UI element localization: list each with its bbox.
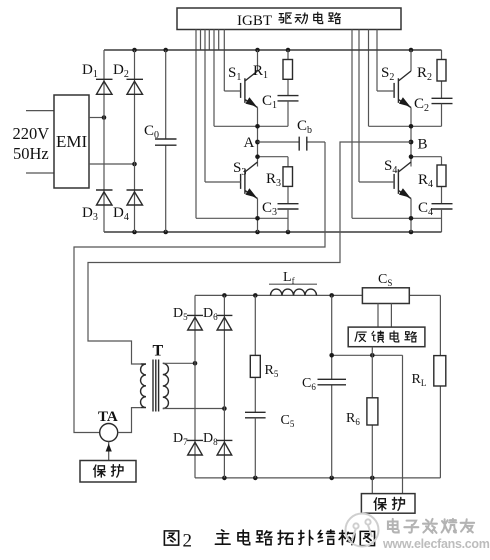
protection box right <box>361 494 415 514</box>
wire: S2 emitter return row <box>369 125 442 127</box>
resistor R4 <box>418 157 446 204</box>
wire: secondary top lead <box>163 362 195 364</box>
transistor S2 (IGBT) <box>377 50 411 167</box>
svg-text:IGBT: IGBT <box>237 13 272 29</box>
svg-text:T: T <box>153 343 164 360</box>
capacitor C3 <box>262 200 299 232</box>
resistor R1 <box>253 50 293 96</box>
diode D5 <box>187 315 203 330</box>
protection box left <box>80 461 136 483</box>
wire: rectifier leg D5/D7 <box>194 295 196 478</box>
capacitor C1 <box>262 93 299 126</box>
transformer T primary winding <box>141 364 146 408</box>
watermark logo <box>346 514 379 547</box>
svg-text:B: B <box>418 137 428 153</box>
wire: EMI to bridge lower <box>89 163 135 165</box>
node: output top rail dots <box>222 293 227 298</box>
wire: output DC bottom rail <box>195 477 440 479</box>
transistor S4 (IGBT) <box>359 158 411 232</box>
svg-text:A: A <box>244 135 255 151</box>
wire: rectifier leg D6/D8 <box>223 295 225 478</box>
svg-text:50Hz: 50Hz <box>13 144 49 163</box>
transistor S1 (IGBT) <box>224 50 257 167</box>
capacitor C6 <box>302 295 346 478</box>
diode D1 <box>96 79 113 94</box>
resistor R3 <box>266 157 293 204</box>
resistor R6 <box>346 347 378 494</box>
capacitor CS (series box) <box>362 272 409 304</box>
capacitor C2 <box>414 96 453 126</box>
svg-text:TA: TA <box>98 409 118 425</box>
inductor Lf <box>269 270 317 295</box>
wire: S4 emitter return row <box>352 217 442 219</box>
wire: rectifier leg D2/D4 <box>134 50 136 232</box>
wire: S3 emitter return row <box>196 217 288 219</box>
resistor R5 <box>250 295 279 412</box>
wire: node A lower tap <box>258 156 289 158</box>
wire: rectifier leg D1/D3 <box>103 50 105 232</box>
wire: node B lower tap <box>411 156 442 158</box>
wire: CS to feedback box <box>378 304 391 328</box>
wire: output DC top rail <box>195 294 440 296</box>
diode D7 <box>187 440 203 455</box>
wire: drive box outputs left bundle <box>196 30 224 219</box>
resistor RL (load) <box>412 295 446 478</box>
wire: drive box outputs right bundle <box>352 30 377 219</box>
diode D4 <box>127 190 144 205</box>
node A <box>255 140 260 145</box>
IGBT drive circuit box U1 <box>177 8 401 30</box>
watermark text <box>388 519 474 533</box>
node: bridge right midpoint <box>132 162 137 167</box>
wire: EMI to bridge upper <box>89 117 104 119</box>
diode D3 <box>96 190 113 205</box>
transformer T secondary winding <box>163 363 169 408</box>
node B <box>409 140 414 145</box>
node: bridge left midpoint <box>102 115 107 120</box>
diode D6 <box>216 315 232 330</box>
wire: Cb output to TA (left down path) <box>74 142 325 433</box>
svg-text:www.elecfans.com: www.elecfans.com <box>382 537 490 551</box>
node: bottom rail junction dots <box>132 230 137 235</box>
transistor S3 (IGBT) <box>205 160 258 232</box>
current transformer TA <box>98 408 141 461</box>
capacitor Cb <box>258 118 326 151</box>
resistor R2 <box>417 50 446 98</box>
capacitor C5 <box>245 412 295 478</box>
capacitor C4 <box>418 200 453 232</box>
wire: node B to transformer primary top <box>88 142 411 364</box>
wire: S1 emitter return row <box>214 125 288 127</box>
svg-text:2: 2 <box>183 531 193 552</box>
caption: figure 2 main circuit topology <box>164 530 374 552</box>
wire: AC input stubs <box>26 111 54 173</box>
feedback circuit box <box>348 327 425 347</box>
capacitor C0 <box>144 50 177 232</box>
wire: feedback node row <box>332 355 403 493</box>
svg-text:EMI: EMI <box>56 132 88 151</box>
diode D2 <box>127 79 144 94</box>
transformer T core <box>153 360 159 412</box>
EMI filter box <box>54 95 89 188</box>
wire: DC bus top rail <box>104 49 442 51</box>
diode D8 <box>216 440 232 455</box>
wire: secondary bottom lead <box>163 408 225 410</box>
node: top rail junction dots <box>132 48 137 53</box>
wire: DC bus bottom rail <box>104 231 442 233</box>
svg-text:220V: 220V <box>13 124 50 143</box>
